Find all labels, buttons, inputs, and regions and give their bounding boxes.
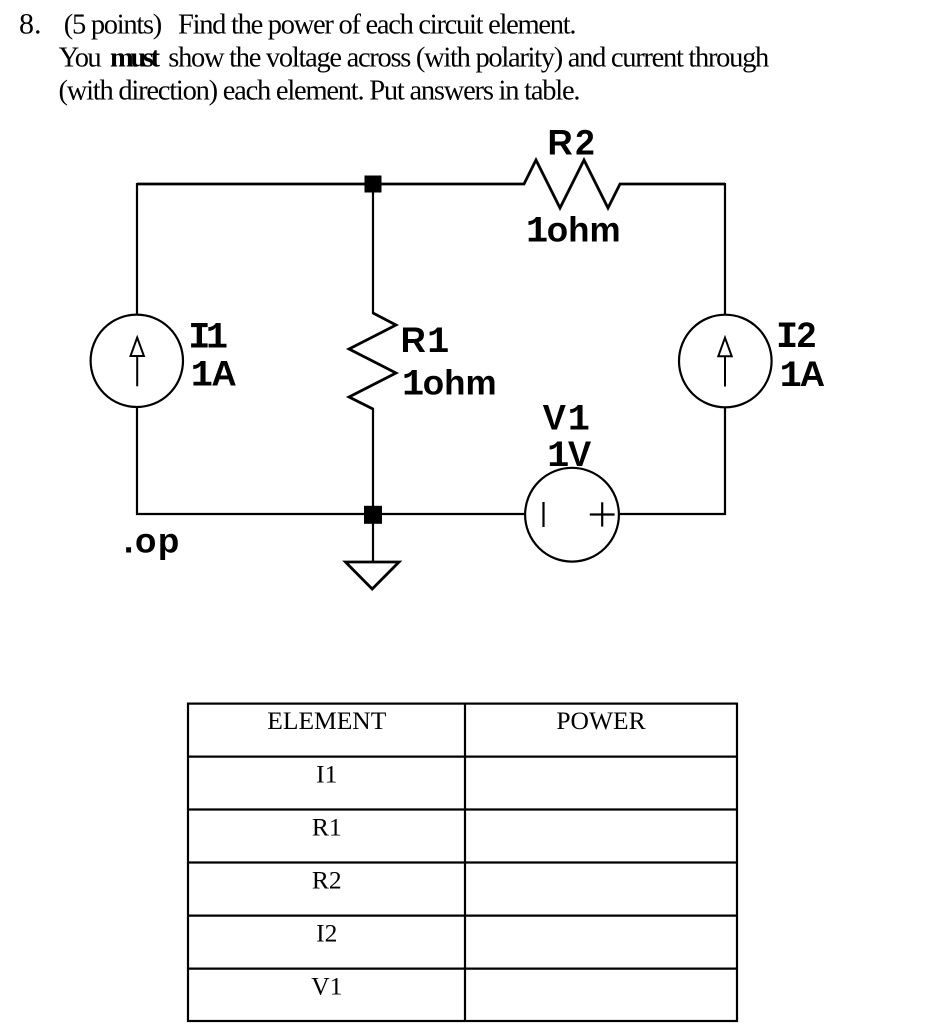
svg-text:I1: I1 [188,318,228,360]
table row line 4 [188,914,737,916]
svg-text:8.: 8. [19,8,42,41]
V1 minus mark [542,502,544,527]
wire top with resistor R2 body [137,160,725,208]
current source I1 circle [91,315,183,407]
wire right upper [724,183,726,316]
node junction top [365,176,382,193]
table row line 5 [188,967,737,969]
svg-text:1A: 1A [191,355,237,398]
heading line 2 [59,43,770,74]
node junction bottom [364,506,382,524]
svg-text:I2: I2 [316,918,337,947]
table row line 1 [188,755,737,757]
svg-text:1A: 1A [780,355,825,398]
wire bottom left [136,513,526,515]
voltage source V1 circle [525,468,619,562]
svg-text:V1: V1 [311,971,342,1000]
wire left lower [136,407,138,515]
wire middle upper [372,184,374,314]
svg-text:R1: R1 [312,812,342,841]
svg-text:R2: R2 [312,865,342,894]
table column divider [464,704,466,1021]
V1 plus mark [590,502,615,526]
svg-text:I2: I2 [776,316,816,359]
svg-text:You: You [59,43,102,74]
svg-text:show the voltage across (with: show the voltage across (with polarity) … [168,43,769,74]
svg-text:1V: 1V [547,435,592,478]
current source I1 arrow [131,338,144,387]
svg-text:must: must [110,43,161,74]
svg-text:(with direction) each element.: (with direction) each element. Put answe… [59,76,581,107]
svg-text:1ohm: 1ohm [526,210,621,253]
current source I2 circle [679,315,772,408]
svg-text:(5 points): (5 points) [64,10,163,41]
wire left upper [136,183,138,315]
svg-text:Find the power of each circuit: Find the power of each circuit element. [178,10,577,41]
wire middle lower [372,408,374,515]
svg-text:R1: R1 [401,321,450,364]
svg-text:.op: .op [124,522,181,561]
heading line 1 [19,8,577,41]
wire right lower [724,407,726,515]
ground wire stub [372,523,374,562]
svg-text:R2: R2 [548,124,595,163]
table row line 2 [188,808,737,810]
ground [346,562,400,589]
svg-text:1ohm: 1ohm [402,363,497,406]
svg-text:I1: I1 [316,759,337,788]
table outer border [188,704,737,1021]
svg-text:ELEMENT: ELEMENT [267,706,386,735]
current source I2 arrow [718,338,731,387]
wire bottom right [618,513,726,515]
resistor R1 body [349,313,396,409]
svg-text:POWER: POWER [556,706,645,735]
table row line 3 [188,861,737,863]
